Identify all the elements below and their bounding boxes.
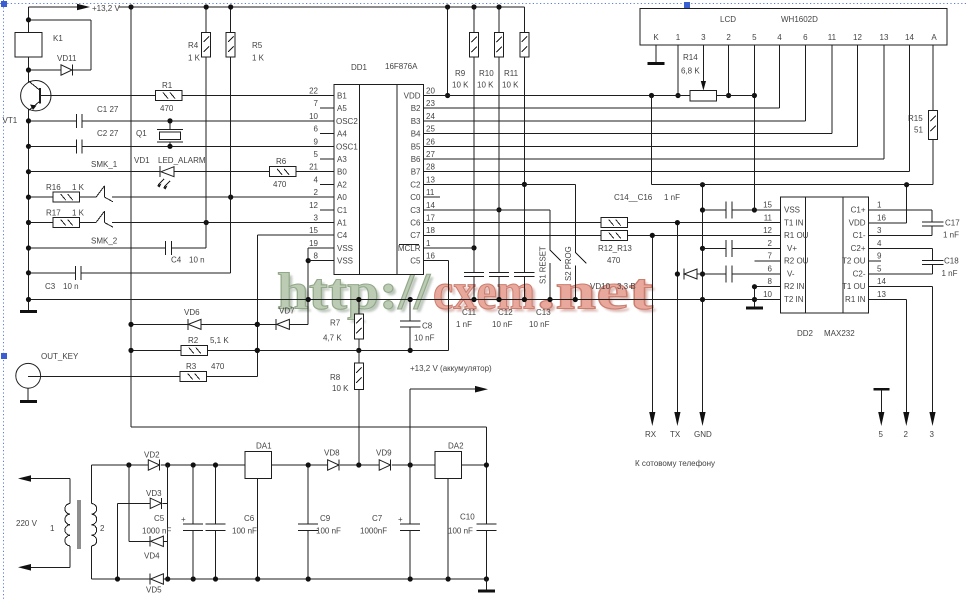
svg-text:7: 7 <box>314 99 319 108</box>
IC DD2 MAX232 <box>780 197 868 338</box>
capacitor C15 1nF <box>726 240 732 257</box>
svg-text:DA1: DA1 <box>256 442 272 451</box>
svg-text:6,8 K: 6,8 K <box>681 67 700 76</box>
wire LCD pin3 to R14 wiper <box>701 45 706 91</box>
node bridge topleft <box>126 462 131 467</box>
node R10 C3row <box>496 207 501 212</box>
resistor R11 10K vertical <box>502 7 529 272</box>
node net96 corner <box>649 93 654 98</box>
resistor R8 10K vertical <box>330 350 363 465</box>
svg-text:4: 4 <box>777 33 782 42</box>
svg-text:VD1: VD1 <box>134 156 150 165</box>
svg-text:C17: C17 <box>945 219 960 228</box>
svg-text:C5: C5 <box>154 514 165 523</box>
node S2 rail <box>573 297 578 302</box>
svg-text:К сотовому телефону: К сотовому телефону <box>635 459 715 468</box>
wire VD6 VD7 row <box>131 248 308 324</box>
svg-text:C2+: C2+ <box>851 244 866 253</box>
svg-text:100 nF: 100 nF <box>316 527 341 536</box>
wire LCD pin11 to B4 <box>423 45 832 134</box>
svg-text:470: 470 <box>211 362 225 371</box>
wire LCD A to R15 <box>932 45 934 185</box>
LED VD1 LED_ALARM <box>134 156 206 190</box>
svg-text:10 n: 10 n <box>189 256 205 265</box>
svg-text:VD2: VD2 <box>144 451 160 460</box>
svg-text:25: 25 <box>426 125 435 134</box>
svg-text:WH1602D: WH1602D <box>781 15 818 24</box>
svg-text:Q1: Q1 <box>136 129 147 138</box>
svg-text:VD11: VD11 <box>57 54 77 63</box>
wire TX line <box>670 223 681 439</box>
svg-text:14: 14 <box>426 201 435 210</box>
svg-text:3: 3 <box>701 33 706 42</box>
node C8 top <box>408 297 413 302</box>
ground MAX232 <box>746 307 763 310</box>
svg-text:12: 12 <box>853 33 862 42</box>
wire LCD pin12 to B5 <box>423 45 857 146</box>
svg-text:12: 12 <box>309 201 318 210</box>
wire C2 row to S2 <box>423 183 575 185</box>
svg-text:11: 11 <box>764 213 773 222</box>
capacitor C6 100nF <box>206 465 258 579</box>
node T2IN rail <box>752 297 757 302</box>
node VD6 row mid <box>255 322 260 327</box>
svg-text:A5: A5 <box>337 104 347 113</box>
wire VSS pins 19 8 <box>308 248 334 261</box>
wire C6 row to T1IN <box>423 222 780 224</box>
node DA1 gnd <box>255 576 260 581</box>
node C6 top <box>213 462 218 467</box>
svg-text:9: 9 <box>314 137 319 146</box>
wire long vertical feed <box>131 7 486 465</box>
svg-text:B2: B2 <box>411 104 421 113</box>
svg-text:10 nF: 10 nF <box>492 320 513 329</box>
diode VD3 <box>146 489 162 509</box>
wire ground rail y299 <box>29 299 755 301</box>
wire LCD pin2 <box>728 45 730 96</box>
svg-text:K: K <box>653 33 659 42</box>
resistor R16 1K <box>46 183 85 202</box>
svg-text:C4: C4 <box>171 256 182 265</box>
wire VSS row with C14 <box>703 209 781 211</box>
svg-text:6: 6 <box>803 33 808 42</box>
pin stub R2OU <box>755 260 781 262</box>
svg-text:16F876A: 16F876A <box>385 62 418 71</box>
diode VD9 <box>376 449 392 471</box>
wire VDD drop <box>447 7 449 96</box>
svg-text:17: 17 <box>426 214 435 223</box>
svg-text:1 nF: 1 nF <box>942 269 958 278</box>
svg-text:VD8: VD8 <box>324 449 340 458</box>
wire net96 to net185 <box>652 96 934 185</box>
svg-text:TX: TX <box>670 430 681 439</box>
diode VD4 <box>144 536 168 561</box>
svg-text:5: 5 <box>314 150 319 159</box>
svg-text:+13,2 V (аккумулятор): +13,2 V (аккумулятор) <box>410 364 492 373</box>
svg-text:24: 24 <box>426 112 435 121</box>
svg-text:R16: R16 <box>46 183 61 192</box>
svg-text:4: 4 <box>314 175 319 184</box>
svg-text:R11: R11 <box>504 69 519 78</box>
svg-text:MCLR: MCLR <box>398 244 421 253</box>
svg-text:2: 2 <box>100 524 105 533</box>
capacitor C9 100nF <box>298 465 341 579</box>
pin numbers DD1 right <box>426 87 435 261</box>
svg-text:1 K: 1 K <box>188 54 201 63</box>
node R11 C2row <box>522 182 527 187</box>
pin names DD2 right <box>842 206 866 305</box>
node VSS pin8 <box>306 258 311 263</box>
svg-text:R1 IN: R1 IN <box>845 295 866 304</box>
node R4 bus <box>204 4 209 9</box>
svg-text:VDD: VDD <box>849 218 866 227</box>
svg-text:3: 3 <box>314 214 319 223</box>
svg-text:+: + <box>181 515 186 524</box>
svg-text:B4: B4 <box>411 130 421 139</box>
svg-text:T1 OU: T1 OU <box>842 282 866 291</box>
node R2 row left <box>128 348 133 353</box>
svg-text:B3: B3 <box>411 117 421 126</box>
svg-text:26: 26 <box>426 137 435 146</box>
svg-text:S1 RESET: S1 RESET <box>539 246 548 284</box>
wire base row pin22 <box>40 95 155 97</box>
svg-text:2: 2 <box>314 188 319 197</box>
svg-text:R10: R10 <box>479 69 494 78</box>
svg-text:2: 2 <box>904 430 909 439</box>
svg-text:1: 1 <box>50 524 55 533</box>
svg-text:S2 PROG: S2 PROG <box>564 246 573 281</box>
svg-text:MAX232: MAX232 <box>824 329 855 338</box>
wire R2IN tie <box>755 287 781 307</box>
node GND rail <box>700 297 705 302</box>
svg-text:C7: C7 <box>372 514 383 523</box>
wire VDD rail row20 <box>423 95 754 97</box>
resistor R7 4,7K vertical <box>323 300 363 351</box>
svg-text:100 nF: 100 nF <box>448 527 473 536</box>
svg-text:5: 5 <box>877 265 882 274</box>
svg-text:R8: R8 <box>330 373 341 382</box>
svg-text:C5: C5 <box>410 257 421 266</box>
svg-text:R1 OU: R1 OU <box>784 231 809 240</box>
node VD6 row left <box>128 322 133 327</box>
svg-text:LCD: LCD <box>720 15 736 24</box>
node Q1 top <box>167 118 172 123</box>
node C13 rail <box>522 297 527 302</box>
svg-text:10 K: 10 K <box>332 384 349 393</box>
svg-text:B5: B5 <box>411 142 421 151</box>
node rail left <box>26 297 31 302</box>
svg-text:11: 11 <box>828 33 837 42</box>
capacitor C8 10nF <box>400 300 435 351</box>
svg-text:R15: R15 <box>908 114 923 123</box>
wire bridge left leg <box>129 465 150 541</box>
pin names DD1 left <box>336 92 358 266</box>
svg-text:DD1: DD1 <box>351 63 368 72</box>
svg-text:VSS: VSS <box>337 257 353 266</box>
resistor R15 51 vertical <box>908 111 938 140</box>
svg-text:1 nF: 1 nF <box>456 320 472 329</box>
svg-text:7: 7 <box>768 252 773 261</box>
node R2IN <box>752 284 757 289</box>
svg-text:T2 OU: T2 OU <box>842 257 866 266</box>
node C10 bottom <box>484 576 489 581</box>
wire V- row with C16 <box>697 273 780 275</box>
regulator DA2 <box>435 442 464 580</box>
capacitor C7 1000nF <box>360 465 420 579</box>
node R5 to A0 <box>228 195 233 200</box>
wire V+ row with C15 <box>703 247 781 249</box>
svg-text:13: 13 <box>880 33 889 42</box>
wire OSC2 row pin10 <box>29 120 335 122</box>
svg-text:10 K: 10 K <box>452 81 469 90</box>
wire bottom power rail <box>91 578 486 580</box>
svg-text:16: 16 <box>877 213 886 222</box>
node R7 bottom <box>356 348 361 353</box>
diode VD11 <box>57 54 77 76</box>
node TX VD10 <box>675 271 680 276</box>
node SMK_2 row <box>26 245 31 250</box>
node R5 bus <box>228 4 233 9</box>
wire RX line <box>645 235 657 439</box>
node R10 bus <box>496 4 501 9</box>
svg-text:3,3 В: 3,3 В <box>617 282 636 291</box>
svg-text:C18: C18 <box>944 257 959 266</box>
node R2 row mid <box>255 348 260 353</box>
node Q1 bottom <box>167 144 172 149</box>
svg-text:R6: R6 <box>276 157 287 166</box>
svg-text:1: 1 <box>426 239 431 248</box>
svg-text:R3: R3 <box>186 362 197 371</box>
svg-text:4: 4 <box>877 239 882 248</box>
resistor R3 470 <box>180 362 225 382</box>
wire left vertical rail <box>28 7 30 310</box>
node R4 to A1 <box>204 220 209 225</box>
svg-text:C1 27: C1 27 <box>97 105 119 114</box>
svg-text:9: 9 <box>877 252 882 261</box>
svg-text:20: 20 <box>426 87 435 96</box>
capacitor C18 1nF <box>869 257 960 279</box>
svg-text:21: 21 <box>309 163 318 172</box>
svg-text:13: 13 <box>426 175 435 184</box>
pin stubs DD1 left short <box>320 108 334 210</box>
wire A1 row pin3 with R17 <box>29 222 335 224</box>
wire T1OU to pin3 phone <box>869 287 936 439</box>
svg-text:10: 10 <box>763 290 772 299</box>
capacitor C2 27 <box>76 129 119 154</box>
wire R2 row y350 <box>131 261 449 351</box>
node C1 row <box>26 118 31 123</box>
svg-text:R5: R5 <box>252 41 263 50</box>
wire LCD pin13 to B6 <box>423 45 884 159</box>
svg-text:470: 470 <box>607 256 621 265</box>
resistor R1 470 <box>155 81 182 113</box>
diode VD2 <box>144 451 160 471</box>
svg-text:K1: K1 <box>53 34 63 43</box>
svg-text:T1 IN: T1 IN <box>784 218 804 227</box>
node bridge bottomright <box>165 576 170 581</box>
svg-text:A2: A2 <box>337 180 347 189</box>
svg-text:2: 2 <box>726 33 731 42</box>
wire top power rail <box>91 464 486 466</box>
svg-text:SMK_1: SMK_1 <box>91 160 118 169</box>
svg-text:1 K: 1 K <box>72 209 85 218</box>
capacitor C3 10n <box>45 266 81 291</box>
svg-text:16: 16 <box>426 252 435 261</box>
svg-text:1 K: 1 K <box>72 183 85 192</box>
svg-text:5: 5 <box>752 33 757 42</box>
node relay top <box>26 17 31 22</box>
svg-text:B0: B0 <box>337 168 347 177</box>
svg-text:4,7 K: 4,7 K <box>323 334 342 343</box>
svg-text:OSC1: OSC1 <box>336 142 358 151</box>
svg-text:1: 1 <box>676 33 681 42</box>
node RX <box>650 233 655 238</box>
node LCD pin2 rail <box>726 93 731 98</box>
svg-text:51: 51 <box>914 126 923 135</box>
pin stub DD1 C0 <box>423 196 440 198</box>
resistor R17 1K <box>46 209 85 228</box>
node GND top <box>700 182 705 187</box>
capacitor C10 100nF <box>448 465 496 579</box>
connector OUT_KEY <box>16 352 79 403</box>
node C3 row <box>26 270 31 275</box>
wire R1 to pin 22 <box>182 95 334 97</box>
svg-text:GND: GND <box>694 430 712 439</box>
svg-text:OSC2: OSC2 <box>336 117 358 126</box>
svg-text:VD10: VD10 <box>590 282 611 291</box>
potentiometer R14 6,8K <box>681 53 717 101</box>
resistor R13 470 <box>598 230 632 265</box>
svg-text:VD7: VD7 <box>279 307 295 316</box>
capacitor C13 10nF <box>514 272 551 329</box>
svg-text:R2 OU: R2 OU <box>784 257 809 266</box>
node VDD rail <box>445 93 450 98</box>
node S1 rail <box>547 297 552 302</box>
svg-text:10: 10 <box>309 112 318 121</box>
svg-text:C2 27: C2 27 <box>97 129 119 138</box>
svg-text:470: 470 <box>160 104 174 113</box>
svg-text:R2: R2 <box>188 336 199 345</box>
node feed bus <box>128 4 133 9</box>
svg-text:2: 2 <box>768 239 773 248</box>
svg-text:C7: C7 <box>410 231 421 240</box>
pin5 phone stub <box>873 388 889 439</box>
svg-text:12: 12 <box>763 226 772 235</box>
node C10 top <box>484 462 489 467</box>
resistor R5 1K vertical <box>226 7 264 197</box>
svg-text:DD2: DD2 <box>797 329 814 338</box>
node VD3 bottom <box>115 576 120 581</box>
node R9 MCLR <box>471 245 476 250</box>
svg-text:LED_ALARM: LED_ALARM <box>158 156 206 165</box>
svg-text:27: 27 <box>426 150 435 159</box>
node R7 top <box>356 297 361 302</box>
capacitor C17 1nF <box>869 219 961 240</box>
wire +13.2V top bus <box>29 6 525 8</box>
crystal Q1 <box>136 121 183 146</box>
svg-text:OUT_KEY: OUT_KEY <box>41 352 79 361</box>
svg-text:1000 nF: 1000 nF <box>142 527 171 536</box>
svg-text:VT1: VT1 <box>3 116 18 125</box>
diode VD10 3,3V zener <box>590 269 697 291</box>
svg-text:C14__C16: C14__C16 <box>614 193 653 202</box>
svg-text:10 nF: 10 nF <box>529 320 550 329</box>
svg-text:C6: C6 <box>244 514 255 523</box>
capacitor C4 10n <box>166 241 205 265</box>
label C14__C16 <box>614 193 680 202</box>
svg-text:22: 22 <box>309 87 318 96</box>
svg-text:T2 IN: T2 IN <box>784 295 804 304</box>
capacitor C1 27 <box>76 105 119 128</box>
pin numbers DD1 left <box>309 87 318 261</box>
node C5 top <box>191 462 196 467</box>
capacitor C16 1nF <box>726 266 732 283</box>
node C7 bottom <box>408 576 413 581</box>
svg-text:8: 8 <box>314 252 319 261</box>
wire R3 row y376 <box>28 235 334 376</box>
svg-text:+: + <box>398 515 403 524</box>
node R8 rail <box>356 462 361 467</box>
svg-text:A4: A4 <box>337 130 347 139</box>
wire VD3 row <box>118 503 168 579</box>
node C9 top <box>306 462 311 467</box>
svg-text:R17: R17 <box>46 209 61 218</box>
svg-text:10 K: 10 K <box>502 81 519 90</box>
resistor R4 1K vertical <box>188 7 211 223</box>
wire R1IN to pin2 phone <box>869 300 910 440</box>
node VDD16 topnet <box>904 182 909 187</box>
svg-text:1 nF: 1 nF <box>664 193 680 202</box>
svg-text:A3: A3 <box>337 155 347 164</box>
node C5 bottom <box>191 576 196 581</box>
node C12 rail <box>496 297 501 302</box>
pin numbers DD2 left <box>763 201 772 300</box>
wire SMK_1 / B0 row pin21 <box>29 160 335 172</box>
wire LCD K ground <box>648 45 665 65</box>
svg-text:C8: C8 <box>422 322 433 331</box>
wire LCD pin14 to B7 <box>423 45 909 172</box>
svg-text:C3: C3 <box>410 206 421 215</box>
wire C3 row <box>29 197 231 273</box>
svg-text:19: 19 <box>309 239 318 248</box>
svg-text:VD4: VD4 <box>144 552 160 561</box>
node relay bottom <box>26 67 31 72</box>
node R16 row <box>26 195 31 200</box>
relay K1 <box>15 33 63 58</box>
node C8 bottom <box>408 348 413 353</box>
pin names DD2 left <box>784 206 809 305</box>
svg-text:470: 470 <box>273 180 287 189</box>
wire C7 row to R1OU <box>423 234 780 236</box>
svg-text:C2-: C2- <box>853 270 866 279</box>
svg-text:18: 18 <box>426 226 435 235</box>
svg-text:6: 6 <box>768 265 773 274</box>
svg-text:R1: R1 <box>162 81 173 90</box>
svg-text:15: 15 <box>309 226 318 235</box>
svg-text:10 n: 10 n <box>63 282 79 291</box>
wire T2IN stub <box>754 299 780 301</box>
IC DD1 16F876A <box>334 62 423 274</box>
svg-text:C11: C11 <box>462 308 477 317</box>
svg-text:8: 8 <box>768 277 773 286</box>
wire C2+ row <box>869 248 933 260</box>
svg-text:VDD: VDD <box>404 92 421 101</box>
node LCD pin5 rail <box>752 93 757 98</box>
node C11 rail <box>471 297 476 302</box>
node GND C14 <box>700 207 705 212</box>
svg-text:A: A <box>931 33 937 42</box>
resistor R12 470 <box>601 218 628 228</box>
